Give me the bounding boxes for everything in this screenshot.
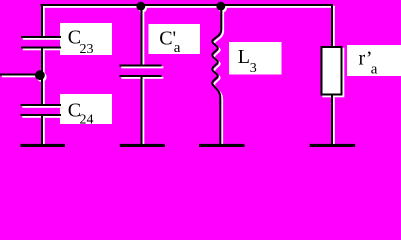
value label C24 [68,100,94,128]
label box L3 [229,42,282,75]
ground bar under L3 branch [199,144,245,147]
wire C'a branch upper segment [141,8,143,65]
wire left branch middle segment [41,49,43,105]
wire r'a branch lower segment [331,96,333,146]
ground bar under left branch [21,144,66,147]
capacitor C'a top plate [120,65,162,67]
junction node dot left [35,70,45,80]
label box C24 [60,94,112,124]
ground bar under C'a branch [120,144,165,147]
wire left stub to edge [0,74,40,76]
svg-text:L: L [238,46,250,68]
value label r'a [359,48,378,78]
svg-text:a: a [371,61,378,77]
wire C'a branch lower segment [141,77,143,146]
capacitor C24 top plate [21,104,62,106]
capacitor C'a bottom plate [120,75,162,77]
svg-text:23: 23 [80,42,94,57]
value label C23 [68,27,94,57]
wire left branch lower segment [41,116,43,146]
ground bar under r'a branch [310,144,355,147]
wire left branch upper segment [41,4,43,36]
junction node dot on top bus at L3 [216,2,225,11]
capacitor C23 bottom plate [21,47,61,49]
svg-text:3: 3 [250,61,257,76]
junction node dot on top bus at C'a [136,2,145,11]
label box C'a [149,24,201,54]
wire r'a branch upper segment [331,4,333,46]
svg-text:24: 24 [80,113,94,128]
capacitor C24 bottom plate [21,114,62,116]
resistor r'a body [322,47,342,95]
value label C'a [159,28,181,57]
svg-text:a: a [174,40,181,56]
value label L3 [238,46,257,76]
label box r'a [347,45,401,76]
white halo of wires [2,4,344,148]
inductor L3 coil and leads [212,8,221,146]
capacitor C23 top plate [21,36,61,38]
wire top bus [41,4,334,6]
label box C23 [60,23,112,55]
